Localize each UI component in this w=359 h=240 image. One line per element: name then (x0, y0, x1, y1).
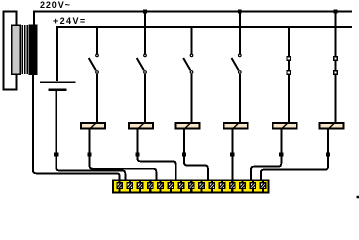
wire relay K6 to terminal 14 (261, 130, 328, 183)
junction dot branch 6 on 220V rail (334, 10, 338, 14)
terminal screw 15 (260, 181, 266, 191)
switch S2 top contact (144, 54, 147, 57)
connector X2 upper terminal (334, 57, 337, 60)
transformer T1 primary winding (grey) (12, 25, 20, 74)
mains input bracket (4, 11, 18, 89)
terminal screw 7 (178, 181, 184, 191)
wire branch 3 lower (191, 74, 193, 123)
wire branch 3 upper (191, 27, 193, 54)
transformer T1 secondary winding (black) (29, 25, 37, 75)
switch S2 blade (137, 58, 144, 70)
switch S1 top contact (96, 54, 99, 57)
junction dot relay K6 wire (326, 152, 330, 156)
terminal screw 9 (199, 181, 205, 191)
switch S4 bottom contact (239, 71, 242, 74)
switch S1 blade (89, 58, 96, 70)
wire primary bottom lead (16, 74, 18, 90)
transformer T1 core laminations (21, 25, 28, 74)
wire relay K4 to terminal 11 (231, 130, 233, 183)
wire branch 5 (288, 27, 290, 123)
wire branch 1 upper (96, 27, 98, 54)
wire relay K3 to terminal 9 (184, 130, 208, 183)
wire branch 2 upper (144, 11, 146, 54)
wire primary top lead (16, 11, 18, 26)
relay K3 coil box (176, 123, 200, 130)
terminal screw 1 (117, 181, 123, 191)
corner dot bottom right (357, 196, 359, 199)
terminal screw 8 (188, 181, 194, 191)
relay K4 coil box (224, 123, 248, 130)
terminal strip X3 body (113, 180, 269, 192)
wire transformer secondary to terminal 1 (33, 74, 120, 182)
terminal screw 4 (147, 181, 153, 191)
switch S3 top contact (190, 54, 193, 57)
battery B1 negative plate (48, 88, 66, 91)
terminal screw 11 (219, 181, 225, 191)
connector X1 lower terminal (287, 71, 290, 74)
wire relay K5 to terminal 13 (251, 130, 281, 183)
connector X2 lower terminal (334, 71, 337, 74)
wire battery bottom lead (55, 91, 57, 165)
junction dot relay K3 wire (182, 152, 186, 156)
battery B1 positive plate (40, 81, 76, 83)
switch S4 blade (232, 58, 239, 70)
junction dot battery wire (54, 152, 58, 156)
terminal screw 3 (137, 181, 143, 191)
switch S3 blade (183, 58, 190, 70)
connector X1 upper terminal (287, 57, 290, 60)
wire relay K1 to terminal strip (90, 130, 157, 183)
switch S4 top contact (239, 54, 242, 57)
wire relay K2 to terminal 6 (138, 130, 176, 183)
svg-text:+24V=: +24V= (53, 16, 87, 26)
terminal screw 2 (127, 181, 133, 191)
terminal screw 5 (158, 181, 164, 191)
wire branch 1 lower (96, 74, 98, 123)
terminal screw 12 (229, 181, 235, 191)
switch S3 bottom contact (190, 71, 193, 74)
relay K5 coil box (273, 123, 297, 130)
junction dot branch 2 on 220V rail (143, 10, 147, 14)
switch S2 bottom contact (144, 71, 147, 74)
wire battery to terminal strip (56, 163, 125, 182)
wire branch 4 lower (239, 74, 241, 123)
junction dot branch 4 on 220V rail (238, 10, 242, 14)
220V rail (34, 11, 352, 25)
junction dot relay K4 wire (230, 152, 234, 156)
relay K1 coil box (81, 123, 105, 130)
+24V rail (57, 27, 352, 81)
terminal screw 13 (240, 181, 246, 191)
junction dot relay K2 wire (135, 152, 139, 156)
relay K6 coil box (320, 123, 344, 130)
svg-text:220V~: 220V~ (40, 0, 71, 10)
terminal screw 6 (168, 181, 174, 191)
junction dot relay K5 wire (279, 152, 283, 156)
switch S1 bottom contact (96, 71, 99, 74)
wire branch 4 upper (239, 11, 241, 54)
wire branch 2 lower (144, 74, 146, 123)
terminal screw 14 (250, 181, 256, 191)
relay K2 coil box (129, 123, 153, 130)
junction dot relay K1 wire (87, 152, 91, 156)
wire branch 6 (335, 11, 337, 122)
terminal screw 10 (209, 181, 215, 191)
